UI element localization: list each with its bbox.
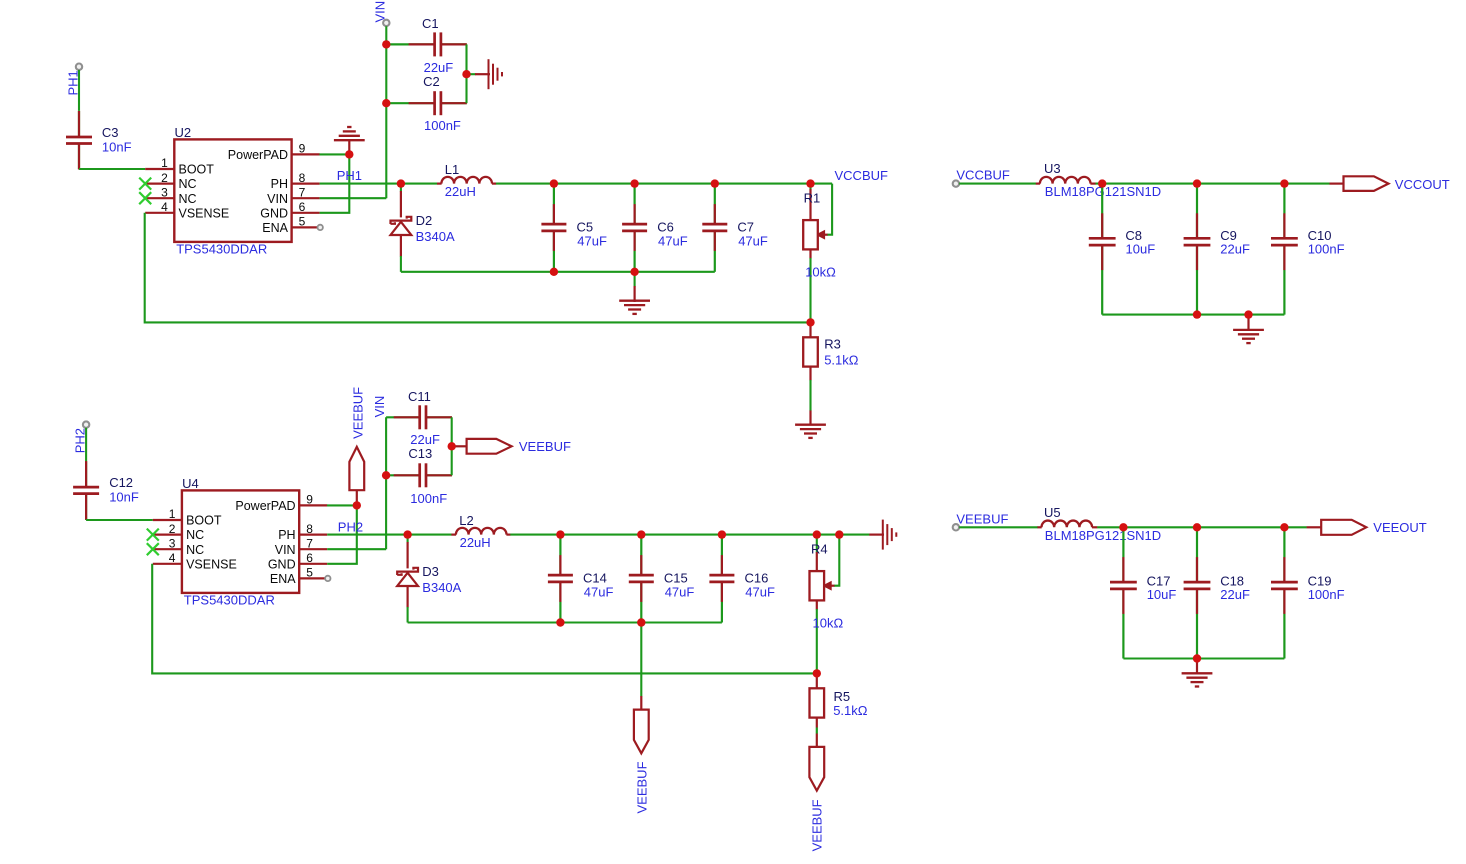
R4 wiper arrowhead bbox=[823, 582, 831, 590]
junction VEE rail at R4 wiper bbox=[835, 530, 843, 538]
wire VIN pin to VIN net bbox=[320, 197, 387, 199]
svg-text:PowerPAD: PowerPAD bbox=[235, 499, 295, 513]
L2 left lead bbox=[451, 533, 456, 535]
svg-text:VEEBUF: VEEBUF bbox=[351, 387, 366, 439]
capacitor C6 bbox=[622, 184, 647, 272]
svg-text:2: 2 bbox=[169, 522, 176, 536]
svg-text:R1: R1 bbox=[804, 191, 821, 206]
IC U2 TPS5430DDAR pin 8 PH bbox=[292, 183, 320, 185]
IC U2 TPS5430DDAR pin 3 NC bbox=[145, 197, 174, 199]
wire VIN vertical bbox=[385, 26, 387, 198]
ground stem under R3 bbox=[809, 411, 811, 426]
ground GND VEE filter bbox=[1182, 673, 1213, 686]
wire VEEBUF to U5 bbox=[959, 526, 1038, 528]
junction VEE rail at C18 bbox=[1193, 523, 1201, 531]
wire U4 VIN pin bbox=[327, 548, 386, 550]
svg-text:NC: NC bbox=[186, 543, 204, 557]
IC U4 TPS5430DDAR body bbox=[182, 490, 299, 593]
svg-text:C12: C12 bbox=[109, 475, 133, 490]
U3 left lead bbox=[1036, 183, 1040, 185]
svg-text:100nF: 100nF bbox=[424, 118, 461, 133]
supply arrow VEEBUF up bbox=[349, 447, 364, 490]
junction VEE rail at C14 bbox=[556, 530, 564, 538]
IC U2 TPS5430DDAR pin 4 VSENSE bbox=[145, 212, 174, 214]
svg-text:47uF: 47uF bbox=[658, 233, 688, 248]
svg-text:VIN: VIN bbox=[373, 1, 388, 23]
junction bottom rail at C5 bbox=[550, 268, 558, 276]
svg-text:BOOT: BOOT bbox=[186, 514, 222, 528]
IC U4 TPS5430DDAR pin 7 VIN bbox=[299, 548, 327, 550]
ferrite bead U3 bbox=[1040, 177, 1091, 184]
svg-text:C15: C15 bbox=[664, 570, 688, 585]
svg-text:TPS5430DDAR: TPS5430DDAR bbox=[184, 592, 275, 607]
capacitor C11 bbox=[386, 405, 452, 429]
svg-text:NC: NC bbox=[179, 192, 197, 206]
ferrite bead U5 bbox=[1042, 521, 1093, 528]
svg-text:VCCBUF: VCCBUF bbox=[835, 168, 889, 183]
node PH2 open pin bbox=[83, 421, 89, 427]
wire PH node to D2 bbox=[400, 184, 402, 192]
R3 bottom lead bbox=[809, 366, 811, 380]
R4 wiper shaft bbox=[828, 585, 835, 587]
svg-text:PH: PH bbox=[278, 528, 295, 542]
wire PH pin to node bbox=[320, 183, 401, 185]
svg-text:VEEBUF: VEEBUF bbox=[956, 511, 1008, 526]
node VEEBUF open pin bbox=[953, 524, 959, 530]
capacitor C10 bbox=[1271, 184, 1298, 315]
wire to input ground bbox=[467, 73, 476, 75]
resistor R3 5.1k bbox=[803, 337, 818, 366]
svg-text:C1: C1 bbox=[422, 16, 439, 31]
svg-text:22uF: 22uF bbox=[1220, 242, 1250, 257]
IC U2 TPS5430DDAR pin 9 PowerPAD bbox=[292, 153, 320, 155]
svg-text:VCCBUF: VCCBUF bbox=[956, 168, 1010, 183]
svg-text:100nF: 100nF bbox=[1308, 242, 1345, 257]
junction U4 PowerPAD node bbox=[353, 501, 361, 509]
svg-text:VSENSE: VSENSE bbox=[186, 557, 237, 571]
junction rail at C6 bbox=[630, 179, 638, 187]
R1 bottom lead bbox=[809, 249, 811, 258]
svg-text:R3: R3 bbox=[824, 337, 841, 352]
svg-text:U4: U4 bbox=[182, 476, 199, 491]
svg-text:C6: C6 bbox=[657, 219, 674, 234]
IC U4 TPS5430DDAR pin 5 ENA open end bbox=[325, 576, 330, 581]
trimmer R4 10k bbox=[810, 571, 825, 600]
wire R4 to feedback node bbox=[816, 609, 818, 673]
svg-text:8: 8 bbox=[306, 522, 313, 536]
svg-text:47uF: 47uF bbox=[584, 584, 614, 599]
junction VEE bottom rail at C14 bbox=[556, 618, 564, 626]
R4 bottom lead bbox=[816, 600, 818, 609]
IC U2 TPS5430DDAR pin 6 GND bbox=[292, 212, 320, 214]
wire R1 to feedback node bbox=[809, 258, 811, 322]
supply arrow VEEBUF down (C15) bbox=[634, 710, 649, 754]
capacitor C16 bbox=[709, 535, 734, 623]
wire output ground rail bbox=[401, 271, 715, 273]
svg-text:L1: L1 bbox=[445, 162, 459, 177]
svg-text:5: 5 bbox=[299, 215, 306, 229]
capacitor C5 bbox=[541, 184, 566, 272]
wire R1 top stub bbox=[809, 184, 811, 190]
junction VEE gnd rail at C18 bbox=[1193, 654, 1201, 662]
junction VIN at C1 bbox=[382, 40, 390, 48]
junction VCC rail at C10 bbox=[1280, 179, 1288, 187]
svg-text:R5: R5 bbox=[834, 689, 851, 704]
svg-text:BLM18PG121SN1D: BLM18PG121SN1D bbox=[1045, 528, 1161, 543]
junction PowerPAD node bbox=[345, 150, 353, 158]
junction VCC rail at C8 bbox=[1098, 179, 1106, 187]
capacitor C1 bbox=[386, 32, 467, 56]
svg-text:VEEBUF: VEEBUF bbox=[634, 761, 649, 813]
svg-text:PH1: PH1 bbox=[337, 168, 362, 183]
junction VCC gnd rail at C9 bbox=[1193, 310, 1201, 318]
wire VEE rail bbox=[510, 534, 869, 536]
wire PH2 node to L2 bbox=[408, 534, 452, 536]
svg-text:5: 5 bbox=[306, 566, 313, 580]
junction PH2 node at D3 bbox=[403, 530, 411, 538]
svg-text:L2: L2 bbox=[459, 513, 473, 528]
capacitor C8 bbox=[1089, 184, 1116, 315]
wire C12 to BOOT U4 bbox=[86, 519, 153, 521]
ground stem VCC filter bbox=[1247, 317, 1249, 331]
svg-text:10uF: 10uF bbox=[1126, 242, 1156, 257]
junction VCC gnd rail at ground bbox=[1244, 310, 1252, 318]
D2 anode lead bbox=[400, 235, 402, 257]
VEEBUF down arrow stem bbox=[640, 696, 642, 710]
R4 top lead bbox=[816, 552, 818, 571]
wire C11-C13 right side bbox=[451, 417, 453, 475]
wire U4 PowerPAD to GND pin bbox=[327, 505, 357, 563]
D3 cathode lead bbox=[407, 542, 409, 568]
ground GND at C1-C2 bbox=[489, 59, 503, 89]
junction VIN at C2 bbox=[382, 99, 390, 107]
svg-text:3: 3 bbox=[161, 185, 168, 199]
ground GND at VEE rail end bbox=[883, 520, 897, 550]
wire D2 to bottom rail bbox=[400, 256, 402, 272]
svg-text:9: 9 bbox=[306, 493, 313, 507]
IC U4 TPS5430DDAR pin 5 ENA bbox=[299, 577, 327, 579]
svg-text:PH: PH bbox=[271, 177, 288, 191]
supply arrow VEEOUT bbox=[1321, 520, 1366, 535]
junction C11-C13 VEEBUF node bbox=[448, 442, 456, 450]
junction VEE rail at C16 bbox=[718, 530, 726, 538]
IC U4 TPS5430DDAR no-connect cross pin 3 bbox=[147, 543, 159, 555]
svg-text:6: 6 bbox=[306, 551, 313, 565]
svg-text:C3: C3 bbox=[102, 125, 119, 140]
wire VEE filter ground rail bbox=[1123, 657, 1284, 659]
VCCOUT lead bbox=[1330, 183, 1344, 185]
svg-text:47uF: 47uF bbox=[665, 584, 695, 599]
ground GND under R3 bbox=[795, 425, 826, 438]
capacitor C15 bbox=[629, 535, 654, 623]
supply arrow VEEBUF right bbox=[467, 439, 512, 454]
wire PowerPAD node to GND pin bbox=[320, 154, 350, 212]
capacitor C9 bbox=[1184, 184, 1211, 315]
ground GND VCC filter bbox=[1233, 330, 1264, 343]
svg-text:10kΩ: 10kΩ bbox=[805, 264, 836, 279]
IC U4 TPS5430DDAR pin 6 GND bbox=[299, 563, 327, 565]
capacitor C2 bbox=[386, 91, 467, 115]
R3 top lead bbox=[809, 322, 811, 337]
resistor R5 5.1k bbox=[810, 688, 825, 717]
svg-text:VIN: VIN bbox=[267, 192, 288, 206]
svg-text:BOOT: BOOT bbox=[179, 163, 215, 177]
svg-text:10nF: 10nF bbox=[102, 140, 132, 155]
IC U4 TPS5430DDAR pin 2 NC bbox=[153, 533, 182, 535]
wire C1-C2 right side bbox=[465, 44, 467, 103]
capacitor C14 bbox=[548, 535, 573, 623]
junction bottom rail at C6 bbox=[630, 268, 638, 276]
wire U4 PowerPAD bbox=[327, 504, 357, 506]
junction rail at C7 bbox=[711, 179, 719, 187]
svg-text:GND: GND bbox=[268, 557, 296, 571]
svg-text:10uF: 10uF bbox=[1147, 587, 1177, 602]
trimmer R1 10k bbox=[803, 220, 818, 249]
svg-text:ENA: ENA bbox=[262, 221, 288, 235]
svg-text:5.1kΩ: 5.1kΩ bbox=[833, 703, 868, 718]
wire VSENSE feedback bbox=[145, 213, 811, 323]
junction VCC rail at C9 bbox=[1193, 179, 1201, 187]
wire U4 PH pin to node bbox=[327, 534, 407, 536]
R1 top lead bbox=[809, 189, 811, 220]
IC U2 TPS5430DDAR no-connect cross pin 2 bbox=[139, 178, 151, 190]
wire R3 to ground bbox=[809, 380, 811, 411]
VEEBUF right lead bbox=[453, 445, 467, 447]
svg-text:C7: C7 bbox=[737, 219, 754, 234]
wire C6 node to ground bbox=[634, 272, 636, 287]
IC U4 TPS5430DDAR no-connect cross pin 2 bbox=[147, 529, 159, 541]
svg-text:VIN: VIN bbox=[275, 543, 296, 557]
R5 top lead bbox=[816, 673, 818, 688]
ground lead VEE rail bbox=[869, 533, 884, 535]
supply arrow VCCOUT bbox=[1344, 176, 1389, 191]
wire VCCOUT rail bbox=[1096, 183, 1330, 185]
IC U2 TPS5430DDAR pin 5 ENA open end bbox=[318, 225, 323, 230]
svg-text:VEEBUF: VEEBUF bbox=[810, 799, 825, 851]
diode D3 B340A bbox=[397, 568, 418, 586]
U3 right lead bbox=[1090, 183, 1095, 185]
IC U2 TPS5430DDAR pin 1 BOOT bbox=[145, 168, 174, 170]
svg-text:4: 4 bbox=[161, 200, 168, 214]
svg-text:C14: C14 bbox=[583, 570, 607, 585]
R5 lead wire blip bbox=[816, 728, 818, 734]
svg-text:ENA: ENA bbox=[270, 572, 296, 586]
capacitor C13 bbox=[386, 463, 452, 487]
junction rail at C5 bbox=[550, 179, 558, 187]
junction feedback node R1-R3 bbox=[806, 318, 814, 326]
U5 left lead bbox=[1037, 526, 1041, 528]
junction VEE rail at R4 bbox=[813, 530, 821, 538]
diode D2 B340A bbox=[391, 217, 412, 235]
svg-text:100nF: 100nF bbox=[410, 491, 447, 506]
svg-text:2: 2 bbox=[161, 171, 168, 185]
capacitor C19 bbox=[1271, 527, 1298, 658]
U5 right lead bbox=[1092, 526, 1097, 528]
L1 left lead bbox=[437, 183, 442, 185]
svg-text:C13: C13 bbox=[408, 446, 432, 461]
junction VEE rail at C17 bbox=[1119, 523, 1127, 531]
IC U4 TPS5430DDAR pin 8 PH bbox=[299, 533, 327, 535]
svg-text:VIN: VIN bbox=[372, 396, 387, 418]
ground lead input bbox=[475, 73, 490, 75]
wire VEEOUT rail bbox=[1097, 526, 1307, 528]
wire C3 to BOOT bbox=[79, 168, 145, 170]
junction VIN at C13 bbox=[382, 471, 390, 479]
R5 bottom lead bbox=[816, 717, 818, 727]
svg-text:VSENSE: VSENSE bbox=[179, 206, 230, 220]
capacitor C17 bbox=[1110, 527, 1137, 658]
svg-text:22uH: 22uH bbox=[445, 184, 476, 199]
svg-text:3: 3 bbox=[169, 536, 176, 550]
svg-text:C5: C5 bbox=[577, 219, 594, 234]
svg-text:VEEBUF: VEEBUF bbox=[519, 439, 571, 454]
wire PH1 to C3 bbox=[78, 70, 80, 111]
junction feedback node R4-R5 bbox=[813, 669, 821, 677]
svg-text:TPS5430DDAR: TPS5430DDAR bbox=[176, 241, 267, 256]
svg-text:6: 6 bbox=[299, 200, 306, 214]
svg-text:PH2: PH2 bbox=[338, 519, 363, 534]
svg-text:22uF: 22uF bbox=[1220, 587, 1250, 602]
capacitor C18 bbox=[1184, 527, 1211, 658]
IC U2 TPS5430DDAR no-connect cross pin 3 bbox=[139, 192, 151, 204]
svg-text:B340A: B340A bbox=[422, 580, 461, 595]
L1 right lead bbox=[492, 183, 496, 185]
wire PH2 node to D3 bbox=[407, 535, 409, 543]
svg-text:C2: C2 bbox=[423, 74, 440, 89]
ground stem above PowerPAD bbox=[348, 140, 350, 152]
node VCCBUF open pin bbox=[953, 180, 959, 186]
svg-text:U2: U2 bbox=[175, 125, 192, 140]
svg-text:U5: U5 bbox=[1044, 505, 1061, 520]
R5 lead to arrow bbox=[816, 734, 818, 748]
R1 wiper shaft bbox=[821, 234, 828, 236]
svg-text:D2: D2 bbox=[416, 213, 433, 228]
R1 wiper arrowhead bbox=[817, 231, 825, 239]
IC U2 TPS5430DDAR body bbox=[174, 139, 291, 242]
wire VCCBUF to U3 bbox=[959, 183, 1036, 185]
svg-text:22uF: 22uF bbox=[424, 60, 454, 75]
svg-text:47uF: 47uF bbox=[738, 233, 768, 248]
wire VIN bottom vertical bbox=[385, 417, 387, 549]
VEEOUT lead bbox=[1307, 526, 1322, 528]
wire VEE output ground rail bbox=[408, 621, 722, 623]
IC U2 TPS5430DDAR pin 7 VIN bbox=[292, 197, 320, 199]
capacitor C3 bbox=[66, 111, 92, 170]
inductor L1 bbox=[441, 177, 492, 184]
wire PowerPAD to ground bbox=[319, 153, 349, 155]
svg-text:4: 4 bbox=[169, 551, 176, 565]
IC U2 TPS5430DDAR pin 2 NC bbox=[145, 183, 174, 185]
wire VCCBUF rail bbox=[496, 183, 832, 185]
IC U4 TPS5430DDAR pin 9 PowerPAD bbox=[299, 504, 327, 506]
D2 cathode lead bbox=[400, 191, 402, 217]
svg-text:10nF: 10nF bbox=[109, 490, 139, 505]
svg-text:22uF: 22uF bbox=[410, 432, 440, 447]
D3 anode lead bbox=[407, 586, 409, 608]
node VIN open pin bbox=[383, 20, 389, 26]
svg-text:5.1kΩ: 5.1kΩ bbox=[824, 352, 859, 367]
svg-text:47uF: 47uF bbox=[577, 233, 607, 248]
IC U2 TPS5430DDAR pin 5 ENA bbox=[292, 226, 320, 228]
svg-text:C11: C11 bbox=[408, 389, 431, 404]
supply arrow VEEBUF down (R5) bbox=[809, 747, 824, 791]
svg-text:7: 7 bbox=[306, 536, 313, 550]
wire R4 top stub bbox=[816, 535, 818, 553]
wire rail to R1 wiper bbox=[827, 184, 832, 235]
wire VCC filter ground rail bbox=[1102, 314, 1284, 316]
junction PH node at D2 bbox=[397, 179, 405, 187]
wire rail to R4 wiper bbox=[834, 535, 839, 586]
VEEBUF arrow stem bbox=[356, 490, 358, 504]
capacitor C7 bbox=[702, 184, 727, 272]
svg-text:B340A: B340A bbox=[416, 229, 455, 244]
wire U4 VSENSE feedback bbox=[152, 564, 817, 674]
L2 right lead bbox=[506, 533, 510, 535]
svg-text:10kΩ: 10kΩ bbox=[813, 616, 844, 631]
svg-text:100nF: 100nF bbox=[1308, 587, 1345, 602]
IC U4 TPS5430DDAR pin 4 VSENSE bbox=[153, 563, 182, 565]
wire C15 node to VEEBUF arrow bbox=[640, 623, 642, 697]
wire D3 to bottom rail bbox=[407, 607, 409, 623]
svg-text:VCCOUT: VCCOUT bbox=[1395, 177, 1450, 192]
ground GND under C6 bbox=[619, 301, 650, 314]
svg-text:D3: D3 bbox=[422, 564, 439, 579]
svg-text:9: 9 bbox=[299, 142, 306, 156]
inductor L2 bbox=[456, 528, 507, 535]
junction VEE rail at C15 bbox=[637, 530, 645, 538]
svg-text:22uH: 22uH bbox=[460, 535, 491, 550]
svg-text:NC: NC bbox=[186, 528, 204, 542]
ground stem VEE filter bbox=[1196, 661, 1198, 675]
IC U4 TPS5430DDAR pin 1 BOOT bbox=[153, 519, 182, 521]
junction rail at R1 bbox=[806, 179, 814, 187]
capacitor C12 bbox=[73, 461, 99, 520]
svg-text:47uF: 47uF bbox=[745, 584, 775, 599]
svg-text:VEEOUT: VEEOUT bbox=[1373, 520, 1427, 535]
svg-text:C16: C16 bbox=[745, 570, 769, 585]
junction VEE bottom rail at C15 bbox=[637, 618, 645, 626]
svg-text:NC: NC bbox=[179, 177, 197, 191]
junction VEE rail at C19 bbox=[1280, 523, 1288, 531]
svg-text:1: 1 bbox=[161, 156, 168, 170]
svg-text:8: 8 bbox=[299, 171, 306, 185]
svg-text:1: 1 bbox=[169, 507, 176, 521]
ground stem under C6 bbox=[633, 286, 635, 302]
wire PH2 to C12 bbox=[85, 428, 87, 462]
node PH1 open pin bbox=[76, 63, 82, 69]
svg-text:7: 7 bbox=[299, 185, 306, 199]
junction C1-C2 ground node bbox=[462, 70, 470, 78]
svg-text:PowerPAD: PowerPAD bbox=[228, 148, 288, 162]
svg-text:R4: R4 bbox=[811, 542, 828, 557]
IC U4 TPS5430DDAR pin 3 NC bbox=[153, 548, 182, 550]
ground GND above PowerPAD bbox=[334, 127, 365, 140]
svg-text:GND: GND bbox=[260, 206, 288, 220]
wire PH node to L1 bbox=[401, 183, 437, 185]
svg-text:U3: U3 bbox=[1044, 161, 1061, 176]
